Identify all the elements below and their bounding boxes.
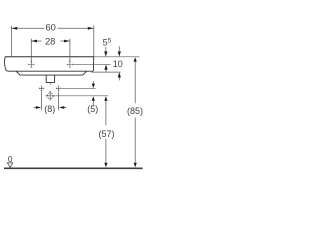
dimension 10 upper arrow xyxy=(118,46,121,56)
dimension 60 right extension line xyxy=(93,26,95,57)
dimension (57) line upper part xyxy=(104,96,107,125)
rim top extension line to right xyxy=(94,56,140,58)
svg-text:0: 0 xyxy=(8,154,13,164)
right fixing hole cross xyxy=(67,62,73,68)
dimension 5.5 upper arrow xyxy=(104,47,107,57)
dimension 10 lower arrow xyxy=(118,72,121,80)
svg-text:60: 60 xyxy=(45,22,55,33)
dimension 5.5 lower arrow xyxy=(104,65,107,73)
dimension (8) left extension line xyxy=(41,92,43,111)
svg-text:(5): (5) xyxy=(87,104,98,114)
rim bottom reference line extended right xyxy=(91,71,120,73)
fixing hole leader line xyxy=(73,63,111,65)
svg-text:28: 28 xyxy=(45,36,55,47)
right supply cross xyxy=(56,86,61,91)
dimension (8) right extension line xyxy=(58,92,60,111)
drain crosshair xyxy=(46,91,55,100)
left supply cross xyxy=(39,86,44,91)
dimension (8) left arrow xyxy=(34,106,42,109)
dimension 28 right extension line xyxy=(69,39,71,62)
svg-text:(57): (57) xyxy=(98,129,114,139)
washbasin left edge xyxy=(4,57,8,71)
dimension (85) line lower part xyxy=(134,118,137,168)
drain trap rectangle xyxy=(46,75,54,82)
drain trap center tick xyxy=(49,82,51,84)
dimension (5) lower arrow xyxy=(92,96,95,105)
svg-text:(8): (8) xyxy=(44,104,55,114)
svg-text:5: 5 xyxy=(108,38,112,45)
dimension 28 right arrow xyxy=(64,40,70,43)
bowl underside xyxy=(16,71,86,75)
datum triangle xyxy=(7,163,12,168)
left fixing hole cross xyxy=(28,62,34,68)
dimension (5) upper arrow xyxy=(92,81,95,88)
dimension 60 line xyxy=(12,27,94,29)
washbasin rim top edge xyxy=(5,56,94,58)
dimension 28 left arrow xyxy=(31,40,37,43)
floor line xyxy=(4,167,143,169)
dimension 60 right arrow xyxy=(88,27,94,30)
dimension 60 left extension line xyxy=(11,26,13,57)
svg-text:(85): (85) xyxy=(127,106,143,116)
washbasin rim bottom edge xyxy=(8,70,92,72)
dimension 28 left extension line xyxy=(30,39,32,62)
dimension (85) line upper part xyxy=(134,57,137,103)
dimension 5.5 label xyxy=(103,38,112,48)
dimension 60 left arrow xyxy=(12,27,18,30)
supply leader line xyxy=(62,87,96,89)
dimension 28 line xyxy=(31,40,70,42)
svg-text:10: 10 xyxy=(113,59,123,69)
washbasin right edge xyxy=(91,57,93,72)
drain leader line xyxy=(55,95,108,97)
dimension (8) right arrow xyxy=(59,106,67,109)
dimension (57) line lower part xyxy=(104,139,107,167)
